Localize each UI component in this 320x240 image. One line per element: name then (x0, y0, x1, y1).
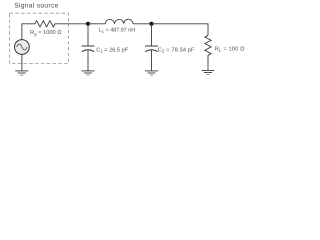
wire: node B down to C2 (151, 24, 153, 46)
AC source V1 circle (15, 40, 30, 55)
capacitor C1 top plate (82, 45, 95, 47)
wire: node B right and down to RL (152, 24, 209, 36)
ground (under RL) (202, 70, 215, 74)
wire: C1 bottom to ground (87, 50, 89, 71)
svg-text:C1 = 26.5 pF: C1 = 26.5 pF (96, 47, 128, 53)
wire: source top up and right to Rg (22, 24, 35, 40)
node B junction dot (149, 22, 153, 26)
signal source enclosure (dashed box) (10, 13, 69, 63)
ground (under C1) (82, 71, 95, 75)
resistor Rg zigzag (35, 21, 55, 27)
wire: C2 bottom to ground (151, 50, 153, 71)
wire: L1 to node B (133, 23, 152, 25)
capacitor C1 curved plate (82, 50, 94, 52)
capacitor C2 top plate (145, 45, 158, 47)
svg-text:C2 = 78.34 pF: C2 = 78.34 pF (158, 47, 195, 53)
svg-text:L1 = 487.97 nH: L1 = 487.97 nH (99, 28, 135, 34)
ground (under source) (15, 71, 28, 75)
inductor L1 (three humps) (105, 19, 133, 24)
node A junction dot (86, 22, 90, 26)
ground (under C2) (145, 71, 158, 75)
svg-text:RL = 100 Ω: RL = 100 Ω (215, 47, 245, 53)
capacitor C2 curved plate (145, 50, 157, 52)
resistor RL zigzag (vertical) (205, 35, 211, 55)
svg-text:Rg = 1000 Ω: Rg = 1000 Ω (30, 30, 62, 36)
wire: source bottom to ground (21, 54, 23, 70)
wire: Rg to node A (55, 23, 88, 25)
wire: node A down to C1 (87, 24, 89, 46)
svg-text:Signal source: Signal source (14, 2, 58, 9)
wire: RL bottom to ground (207, 55, 209, 70)
wire: node A to L1 (88, 23, 105, 25)
AC source sine wave (17, 44, 28, 50)
